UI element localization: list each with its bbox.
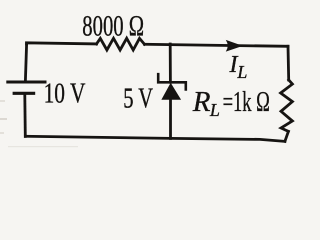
wire right side lower [285,131,289,141]
wire right side upper [287,46,291,80]
svg-text:L: L [209,100,220,120]
svg-text:8000 Ω: 8000 Ω [82,10,144,43]
resistor RL 1k ohm zigzag [281,80,293,131]
paper background [0,0,319,161]
svg-text:=1k Ω: =1k Ω [223,87,270,118]
resistor R1 8000 ohm zigzag [97,38,145,50]
wire middle branch upper [169,44,172,82]
wire left lower (battery minus to bottom) [23,95,26,136]
current arrow IL [226,40,243,52]
battery V1 10 V plates [8,81,45,84]
wire top-left segment [27,43,97,44]
wire left upper (top to battery plus) [25,44,26,81]
svg-text:10 V: 10 V [44,78,86,109]
wire top-right segment [145,44,289,46]
zener diode D1 anode triangle [162,84,180,100]
svg-text:5 V: 5 V [123,83,153,114]
wire bottom [25,136,285,141]
svg-text:R: R [192,86,211,118]
zener diode D1 cathode bar [158,74,186,89]
svg-text:L: L [236,62,247,82]
scan smudge left edge [0,100,5,102]
wire middle branch lower [169,99,172,139]
